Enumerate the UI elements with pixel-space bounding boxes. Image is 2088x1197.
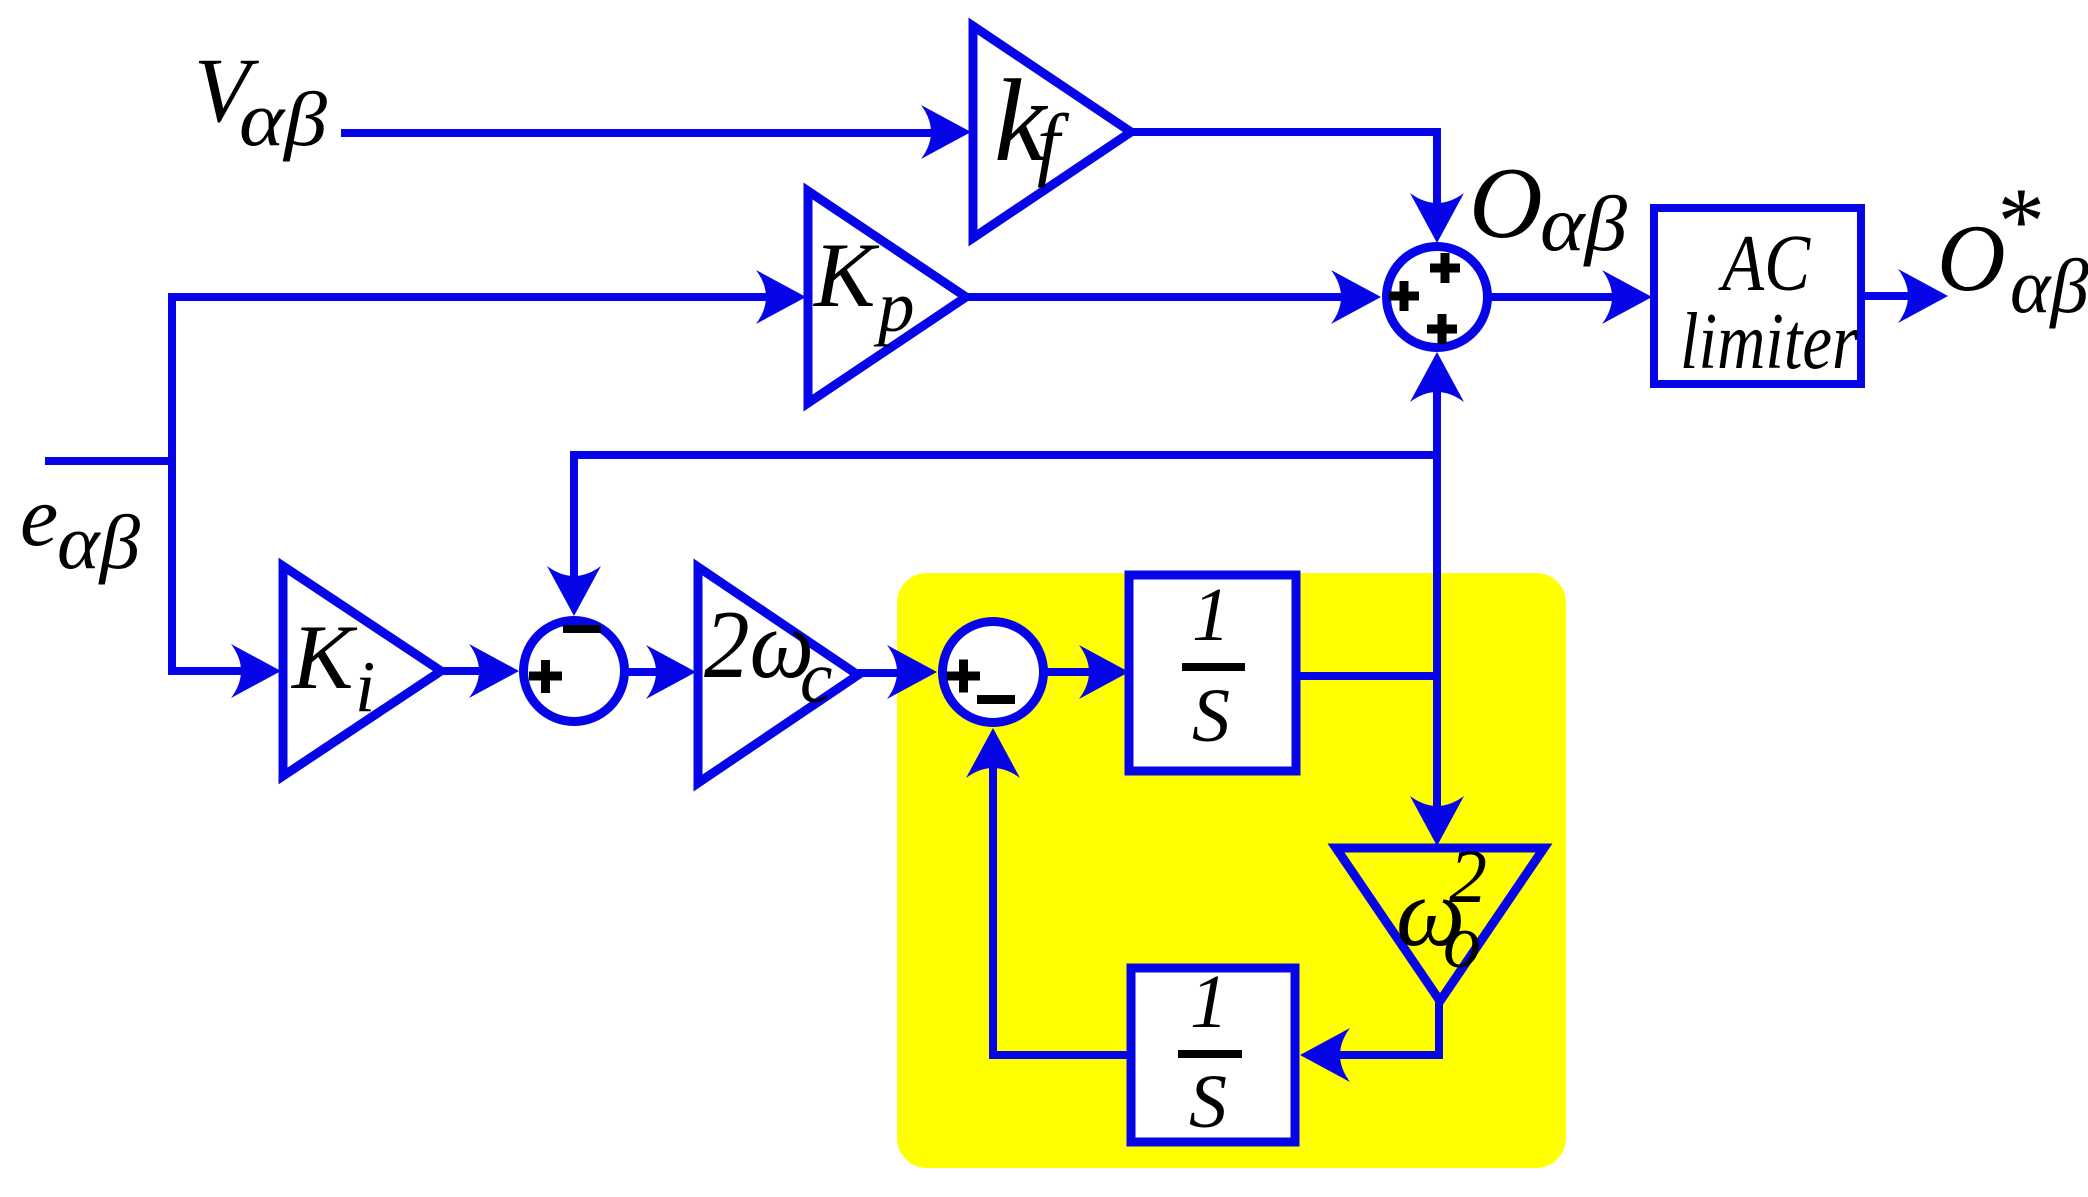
node e_ab label xyxy=(20,468,141,585)
integrator box 2 (1/S) xyxy=(1131,968,1295,1142)
summer S1 xyxy=(1387,247,1488,348)
wire AC limiter output xyxy=(1861,292,1915,300)
arrowhead into S3 left xyxy=(887,645,937,699)
summer S3 xyxy=(943,622,1044,723)
wire junction vertical xyxy=(1433,388,1441,813)
svg-text:S: S xyxy=(1192,674,1230,758)
arrowhead into K_i xyxy=(231,644,281,698)
wire e_ab trunk to K_p and K_i xyxy=(172,297,773,671)
gain 2wc xyxy=(698,567,858,783)
wire integrator 2 output to S3 bottom xyxy=(993,764,1131,1055)
wire S2 output to 2wc xyxy=(624,668,663,676)
arrowhead into k_f xyxy=(921,105,971,159)
arrowhead into AC limiter xyxy=(1602,270,1652,324)
wire V_ab input xyxy=(341,129,940,137)
gain w0^2 triangle xyxy=(1336,848,1544,1001)
svg-text:1: 1 xyxy=(1190,960,1228,1044)
arrowhead output xyxy=(1898,269,1948,323)
svg-text:limiter: limiter xyxy=(1680,298,1859,386)
svg-text:2ω: 2ω xyxy=(704,591,814,698)
gain k_f xyxy=(973,26,1131,238)
wire w2 apex down to integrator 2 xyxy=(1333,997,1439,1055)
gain K_p xyxy=(808,191,966,403)
arrowhead up into S1 bottom xyxy=(1410,352,1464,402)
wire e_ab input stub xyxy=(45,457,176,465)
wire K_p output to S1 xyxy=(966,293,1348,301)
svg-text:αβ: αβ xyxy=(2010,243,2088,329)
arrowhead left into integrator 2 xyxy=(1300,1028,1350,1082)
svg-text:1: 1 xyxy=(1192,573,1230,657)
summer S2 xyxy=(524,621,625,722)
arrowhead into integrator 1 xyxy=(1079,645,1129,699)
arrowhead into K_p xyxy=(756,270,806,324)
wire K_i output to S2 xyxy=(441,667,486,675)
arrowhead down into w2 triangle xyxy=(1410,796,1464,846)
wire S3 output to integrator 1 xyxy=(1043,668,1096,676)
svg-text:S: S xyxy=(1189,1060,1227,1144)
wire S1 output to AC limiter xyxy=(1488,293,1619,301)
svg-text:i: i xyxy=(355,646,375,727)
svg-text:K: K xyxy=(290,606,358,708)
svg-text:c: c xyxy=(800,637,832,718)
arrowhead into S1 left xyxy=(1331,270,1381,324)
svg-text:e: e xyxy=(20,468,58,564)
svg-text:AC: AC xyxy=(1718,220,1812,308)
svg-text:K: K xyxy=(812,224,880,326)
arrowhead down into S2 top xyxy=(547,566,601,616)
svg-text:O: O xyxy=(1469,147,1543,260)
svg-text:αβ: αβ xyxy=(239,76,328,162)
block AC limiter xyxy=(1654,208,1861,384)
svg-text:αβ: αβ xyxy=(57,499,141,585)
arrowhead into S2 left xyxy=(469,644,519,698)
wire 2wc output to S3 xyxy=(858,669,904,677)
gain K_i xyxy=(283,566,441,776)
svg-text:o: o xyxy=(1443,900,1481,984)
svg-text:αβ: αβ xyxy=(1540,180,1627,267)
arrowhead down into S1 top xyxy=(1410,193,1464,243)
node O_ab label xyxy=(1469,147,1627,267)
arrowhead up into S3 bottom xyxy=(966,728,1020,778)
arrowhead into 2wc xyxy=(646,645,696,699)
svg-text:p: p xyxy=(873,266,915,347)
wire feedback from junction to S2 top xyxy=(574,455,1437,583)
wire integrator 1 output to junction xyxy=(1296,672,1437,680)
node O*_ab output label xyxy=(1937,168,2088,329)
SOGI yellow highlight region xyxy=(897,573,1566,1168)
node V_ab label xyxy=(194,39,328,162)
integrator box 1 (1/S) xyxy=(1129,575,1296,771)
wire k_f output to summer S1 xyxy=(1131,132,1437,211)
